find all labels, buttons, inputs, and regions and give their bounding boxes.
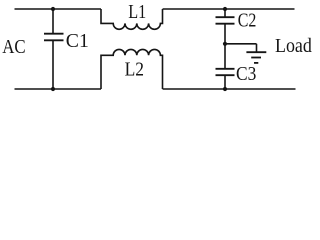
- node: bottom input junction dot: [51, 87, 55, 91]
- capacitor C1 bottom plate: [44, 39, 64, 41]
- wire top-right: L1 to C2 node: [163, 8, 225, 10]
- svg-text:C2: C2: [238, 10, 257, 32]
- node: top input junction dot: [51, 7, 55, 11]
- capacitor C1 bottom lead: [52, 40, 54, 89]
- ground bar 2: [251, 57, 261, 59]
- capacitor C2 top lead: [224, 9, 226, 17]
- wire: ground node to C3: [224, 44, 226, 69]
- wire: C3 node to load bottom terminal: [225, 88, 296, 90]
- svg-text:C1: C1: [66, 30, 89, 52]
- capacitor C1 top plate: [44, 33, 64, 35]
- svg-text:Load: Load: [275, 35, 312, 57]
- inductor L2 winding: [101, 49, 163, 89]
- node: C3 bottom junction dot: [223, 87, 227, 91]
- wire: ground branch horizontal: [225, 43, 257, 45]
- wire top-left: AC terminal to L1: [15, 8, 102, 10]
- capacitor C3 top plate: [216, 68, 235, 70]
- wire bottom-left: AC terminal to L2: [15, 88, 102, 90]
- wire: C2 node to load top terminal: [225, 8, 295, 10]
- inductor L1 winding: [101, 9, 163, 29]
- node: C2 top junction dot: [223, 7, 227, 11]
- wire bottom-right: L2 to C3 node: [163, 88, 225, 90]
- capacitor C2 top plate: [216, 16, 235, 18]
- svg-text:AC: AC: [2, 36, 25, 58]
- svg-text:L1: L1: [128, 1, 146, 23]
- svg-text:L2: L2: [125, 58, 144, 80]
- capacitor C1 top lead: [52, 9, 54, 34]
- node: ground branch junction dot: [223, 42, 227, 46]
- capacitor C2 bottom plate: [216, 23, 235, 25]
- svg-text:C3: C3: [236, 63, 256, 85]
- capacitor C3 bottom plate: [216, 74, 235, 76]
- ground bar 3: [254, 62, 258, 64]
- ground bar 1: [246, 51, 266, 53]
- wire: C2 to ground node: [224, 24, 226, 44]
- capacitor C3 bottom lead: [224, 75, 226, 89]
- wire: ground branch vertical drop: [256, 44, 258, 52]
